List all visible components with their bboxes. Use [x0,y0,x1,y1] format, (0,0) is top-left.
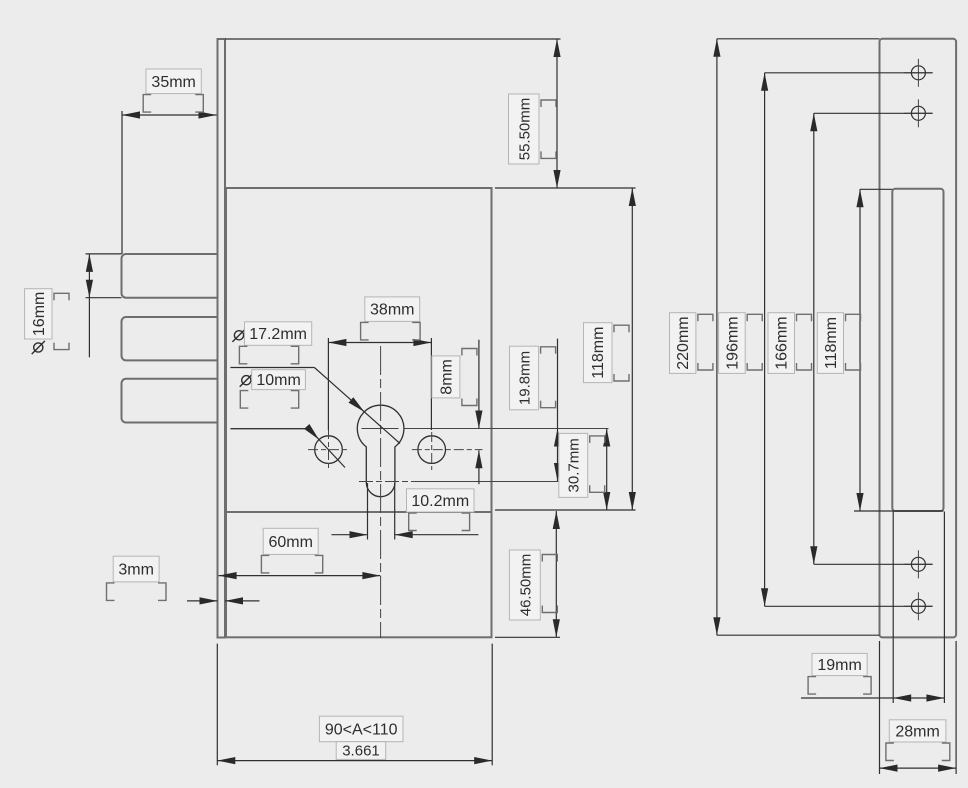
svg-text:166mm: 166mm [774,316,791,369]
svg-text:196mm: 196mm [724,316,741,369]
svg-text:17.2mm: 17.2mm [249,326,307,343]
svg-text:3.661: 3.661 [342,743,380,760]
svg-text:46.50mm: 46.50mm [517,554,534,617]
svg-text:118mm: 118mm [590,327,607,379]
svg-text:220mm: 220mm [675,316,692,369]
svg-text:10.2mm: 10.2mm [411,493,469,510]
svg-text:16mm: 16mm [31,292,48,336]
svg-text:3mm: 3mm [118,562,154,579]
svg-text:90<A<110: 90<A<110 [325,722,398,739]
svg-text:118mm: 118mm [823,317,840,369]
svg-text:60mm: 60mm [268,534,312,551]
svg-text:19mm: 19mm [817,657,861,674]
svg-text:35mm: 35mm [151,74,195,91]
svg-text:19.8mm: 19.8mm [517,351,534,405]
svg-text:28mm: 28mm [895,723,939,740]
svg-text:38mm: 38mm [370,302,414,319]
svg-text:55.50mm: 55.50mm [516,98,533,161]
svg-text:10mm: 10mm [256,372,300,389]
svg-text:30.7mm: 30.7mm [566,438,583,492]
svg-text:8mm: 8mm [438,359,455,395]
